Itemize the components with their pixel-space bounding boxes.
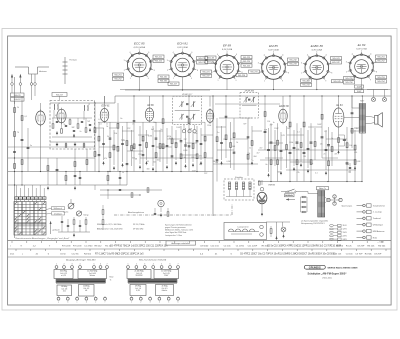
svg-text:C1 4700: C1 4700 [84,246,93,248]
svg-text:EABC 80: EABC 80 [311,44,324,48]
IF transformer T2 bandfilter [240,90,259,119]
svg-text:110/220V: 110/220V [135,275,143,277]
svg-text:gedrückt: gedrückt [53,229,60,232]
svg-text:12k: 12k [348,172,351,174]
svg-text:R8 1k2: R8 1k2 [95,246,103,248]
svg-text:C12 8n: C12 8n [72,254,80,256]
svg-text:R4 50k: R4 50k [84,254,92,256]
svg-text:2. Lautspr.: 2. Lautspr. [373,211,383,214]
wire right bottom rail [258,181,363,182]
voltage tap terminals [329,224,347,240]
output transformer upper winding boxes [54,270,107,279]
svg-text:R7 0,1M: R7 0,1M [73,246,81,248]
svg-text:10n: 10n [194,133,197,135]
tube socket V6 EL 84 [346,43,377,81]
wire heater bus under sockets [125,77,362,91]
svg-text:ZF 460 kHz: ZF 460 kHz [133,229,143,231]
svg-text:e: e [95,302,96,304]
tube socket V4 EM 85 [258,44,289,82]
aenderungen vorbehalten tag [166,241,196,245]
svg-text:4: 4 [159,302,160,304]
svg-text:905-224: 905-224 [243,61,251,63]
svg-text:GRUNDIG: GRUNDIG [309,265,321,269]
svg-text:3: 3 [301,63,302,65]
svg-text:2n: 2n [187,118,189,120]
voltage measurement note [165,223,193,236]
svg-text:4n7: 4n7 [151,129,154,131]
svg-text:0,1: 0,1 [25,116,28,118]
svg-text:1: 1 [173,78,174,80]
value label boxes near socket V4 [249,58,299,73]
svg-text:905-242: 905-242 [332,62,340,64]
svg-text:10k: 10k [114,133,117,135]
svg-text:6: 6 [148,52,149,54]
svg-text:5: 5 [316,51,317,53]
svg-text:c: c [77,302,78,304]
svg-text:C15 12P: C15 12P [297,246,306,248]
svg-text:8: 8 [197,70,198,72]
svg-text:905-211: 905-211 [155,56,163,58]
svg-text:(7012-001): (7012-001) [322,277,332,279]
svg-text:R11 0,5M: R11 0,5M [278,254,288,256]
antenna terminal circles [11,83,37,100]
svg-text:UKW-Dipol: UKW-Dipol [373,225,383,227]
svg-text:10n: 10n [157,159,160,161]
svg-text:C4 10n: C4 10n [346,254,354,256]
svg-text:C10 100P: C10 100P [125,254,136,256]
tube socket V5 EABC 80 [301,44,332,82]
svg-text:2n: 2n [324,154,326,156]
svg-text:4: 4 [352,53,353,55]
svg-text:0,5M: 0,5M [356,161,360,163]
wire mid horizontal links [8,104,356,170]
svg-text:1: 1 [218,80,219,82]
IF transformer T1 bandfilter [173,94,202,125]
svg-text:5k: 5k [236,142,238,144]
svg-text:4n7: 4n7 [257,153,260,155]
svg-text:5: 5 [161,264,162,266]
svg-text:4: 4 [153,264,154,266]
svg-text:1: 1 [264,80,265,82]
svg-text:905-232: 905-232 [289,59,297,61]
wire B+ top rail [115,95,391,96]
svg-text:2: 2 [140,302,141,304]
svg-text:10n: 10n [153,162,156,164]
heater dropper ladder [301,196,308,213]
svg-text:3: 3 [124,60,125,62]
svg-text:7012-63: 7012-63 [207,57,215,59]
svg-text:8: 8 [288,72,289,74]
svg-text:Abschirmgehäuse: Abschirmgehäuse [128,211,145,214]
svg-text:9: 9 [191,78,192,80]
wire main vertical divider [212,96,214,216]
frequency range note [97,224,145,231]
svg-text:5k: 5k [122,172,124,174]
svg-text:2: 2 [136,264,137,266]
power transformer dark winding band [128,279,177,283]
svg-text:ø 0,15: ø 0,15 [61,275,66,277]
value label boxes near socket V1 [113,55,170,83]
svg-text:R1 2k: R1 2k [346,246,353,248]
component list row 2 text [10,254,382,256]
svg-text:250k: 250k [207,125,211,127]
svg-text:0,1: 0,1 [324,131,327,133]
svg-text:ECH 81: ECH 81 [177,42,188,46]
svg-text:1n: 1n [249,148,251,150]
svg-text:9: 9 [148,78,149,80]
svg-text:905-256: 905-256 [345,82,353,84]
inter-rail components [65,171,121,185]
tone network [58,205,104,237]
svg-text:1: 1 [56,264,57,266]
tube socket V1 ECC 85 [124,42,155,80]
svg-text:5: 5 [182,49,183,51]
svg-text:300: 300 [147,169,150,171]
mains switch S1 [281,189,318,197]
pilot lamp and fuse cluster [266,222,290,240]
svg-text:R4 50k: R4 50k [365,254,373,256]
svg-text:EL 84: EL 84 [358,43,366,47]
svg-text:Netzsch.: Netzsch. [285,194,293,197]
value label boxes near socket V2 [168,57,208,86]
value label boxes near socket V3 [201,56,253,78]
svg-text:7: 7 [178,264,179,266]
antenna earth arrows [11,74,22,83]
svg-text:905-231: 905-231 [250,71,258,73]
svg-text:47k: 47k [199,155,202,157]
svg-text:6: 6 [100,264,101,266]
tube socket V2 ECH 81 [167,42,198,80]
svg-text:100P: 100P [130,147,135,149]
svg-text:150P: 150P [274,128,279,130]
svg-text:900-217: 900-217 [56,94,63,96]
value label boxes near socket V6 [344,55,387,84]
svg-text:3: 3 [258,63,259,65]
svg-text:47k: 47k [104,158,107,160]
svg-text:9: 9 [325,80,326,82]
tube socket V3 EF 89 [211,44,242,82]
svg-text:am Spannungswähler eingestellt: am Spannungswähler eingestellte [301,220,328,223]
svg-text:900-012: 900-012 [14,99,21,101]
svg-text:1: 1 [131,302,132,304]
svg-text:900-011: 900-011 [14,95,21,97]
svg-text:8n: 8n [175,143,177,145]
svg-text:905-225: 905-225 [243,65,251,67]
svg-text:R5 300: R5 300 [336,246,344,248]
component list strip top border [8,240,391,242]
additional annotation speckle [99,118,361,175]
svg-text:Änderungen vorbehalten: Änderungen vorbehalten [171,242,190,245]
output transformer dark winding band [56,279,106,283]
tube U1a ECC85 triode [36,110,46,127]
svg-text:4: 4 [173,52,174,54]
svg-text:Drucktast.: Drucktast. [54,212,63,215]
svg-text:0,25: 0,25 [281,135,285,137]
svg-text:10k: 10k [349,145,352,147]
svg-text:0,5M: 0,5M [183,150,188,152]
svg-text:2n: 2n [80,131,82,133]
svg-text:6: 6 [282,54,283,56]
svg-text:Ausgangs-Übertrager 7012-063: Ausgangs-Übertrager 7012-063 [65,259,96,262]
svg-text:8: 8 [154,70,155,72]
svg-text:5: 5 [273,51,274,53]
svg-text:WERKE RADIO-WERKE GMBH: WERKE RADIO-WERKE GMBH [328,266,358,269]
svg-text:905-254: 905-254 [377,81,385,83]
svg-text:905-222: 905-222 [202,76,210,78]
svg-text:2k: 2k [17,107,19,109]
svg-text:0,1: 0,1 [297,131,300,133]
shield enclosure boundary dash-dot [114,204,232,215]
svg-text:6k8: 6k8 [189,128,192,130]
svg-text:6: 6 [370,53,371,55]
svg-text:C9 25P: C9 25P [357,246,365,248]
svg-text:5: 5 [139,49,140,51]
svg-text:1n: 1n [106,123,108,125]
svg-text:Netz: Netz [110,276,114,279]
svg-text:100P: 100P [357,86,362,88]
svg-text:500P: 500P [317,124,322,126]
svg-text:905-212: 905-212 [155,61,163,63]
svg-text:4: 4 [264,54,265,56]
tone potentiometer [76,211,89,217]
svg-text:R4 50k: R4 50k [378,246,386,248]
svg-text:Gleichr.: Gleichr. [162,289,168,292]
svg-text:905-253: 905-253 [377,77,385,79]
svg-text:900-251: 900-251 [114,74,122,76]
svg-text:6k8: 6k8 [232,146,235,148]
svg-text:C2 150: C2 150 [142,246,150,248]
svg-text:3: 3 [144,264,145,266]
svg-text:2n: 2n [356,128,358,130]
svg-text:EABC 80: EABC 80 [279,105,289,108]
svg-text:C1 4700: C1 4700 [236,246,245,248]
svg-text:R7 0,1M: R7 0,1M [95,254,104,256]
svg-text:MW-Antenne: MW-Antenne [373,230,386,233]
loudspeaker LS1 [370,113,382,127]
svg-text:5: 5 [227,51,228,53]
svg-text:AM-Bereiche: 510–1620 kHz: AM-Bereiche: 510–1620 kHz [97,228,123,231]
svg-text:Wellensch.: Wellensch. [54,208,63,210]
viewing note near EM85 [285,191,297,201]
svg-text:12k: 12k [342,140,345,142]
svg-text:Tonband: Tonband [373,218,381,220]
power transformer lower winding boxes [128,283,177,295]
svg-text:905-241: 905-241 [332,58,340,60]
svg-text:L1: L1 [58,103,60,105]
svg-text:ZF-BF 460: ZF-BF 460 [243,90,254,93]
svg-text:900-252: 900-252 [114,79,122,81]
svg-text:905-223: 905-223 [243,57,251,59]
wire output transformer leads [344,96,370,182]
svg-text:8: 8 [331,72,332,74]
svg-text:Lautsprecher: Lautsprecher [237,225,248,228]
left mid section parts [47,102,96,190]
svg-text:47: 47 [55,115,57,117]
svg-text:C14 1n5: C14 1n5 [135,254,144,256]
svg-text:12k: 12k [267,121,270,123]
svg-text:C8 5000: C8 5000 [200,246,209,248]
dial lamp La1 [371,97,375,101]
svg-text:a: a [58,302,59,304]
svg-text:4: 4 [217,54,218,56]
svg-text:905-226: 905-226 [238,75,246,77]
svg-text:ZF 10,7 MHz: ZF 10,7 MHz [133,224,145,226]
svg-text:Netzspannung 110/125/220 V: Netzspannung 110/125/220 V [301,222,325,225]
svg-text:ZF-BF 10,7: ZF-BF 10,7 [181,94,193,96]
svg-text:C11 220P: C11 220P [248,246,258,248]
tube U5 EABC80 AF triode [279,105,290,124]
svg-text:9: 9 [370,79,371,81]
svg-text:905-251: 905-251 [377,56,385,58]
svg-text:C4 10n: C4 10n [224,246,232,248]
waveband switch contact table [14,202,46,236]
svg-text:905-216: 905-216 [198,62,206,64]
volume potentiometer [63,199,74,214]
svg-text:1: 1 [130,78,131,80]
component list row 1 text [10,245,386,248]
svg-text:8: 8 [376,71,377,73]
svg-text:6: 6 [326,54,327,56]
svg-text:700P: 700P [357,91,362,93]
svg-text:5: 5 [94,264,95,266]
svg-text:b: b [67,302,68,304]
svg-text:7: 7 [107,264,108,266]
svg-text:50u: 50u [153,122,156,124]
component list row lines [8,241,391,257]
svg-text:C14 1n5: C14 1n5 [333,254,342,256]
left input column components [13,77,32,238]
svg-text:Ratiofilter: Ratiofilter [235,176,243,179]
svg-text:C3 70P: C3 70P [355,254,363,256]
svg-text:905-215: 905-215 [198,58,206,60]
title block GRUNDIG logo [304,265,325,269]
svg-text:8n: 8n [120,118,122,120]
svg-text:905-245: 905-245 [333,81,341,83]
interstage link wires [95,127,359,162]
svg-text:5n: 5n [30,145,32,147]
FM tuner internal components [40,103,95,172]
output transformer TR2 winding [359,96,365,133]
svg-text:0,1: 0,1 [99,123,102,125]
wire dial lamp feed [355,85,389,97]
svg-text:900-261: 900-261 [160,76,168,78]
output transformer terminals [55,264,108,270]
tube U3 EF89 IF amplifier [145,105,154,123]
svg-text:1: 1 [128,264,129,266]
svg-text:905-243: 905-243 [302,80,310,82]
svg-text:d: d [86,302,87,304]
svg-text:C14 1n5: C14 1n5 [210,246,219,248]
svg-text:EM 85: EM 85 [269,44,278,48]
svg-text:300k: 300k [289,142,293,144]
EL84 cathode network [337,129,346,155]
svg-text:9: 9 [282,80,283,82]
ratio detector filter enclosure [224,176,254,200]
switch table callouts [46,207,65,234]
svg-text:Netz-Transformator 7012-014: Netz-Transformator 7012-014 [139,259,167,262]
svg-text:905-217: 905-217 [170,83,178,85]
svg-text:2n: 2n [132,123,134,125]
svg-text:900-262: 900-262 [160,81,168,83]
tuner unit label box [52,93,67,101]
svg-text:5: 5 [168,302,169,304]
svg-text:47k: 47k [354,152,357,154]
tube U4 EABC80 demodulator diodes [206,108,214,124]
svg-text:1n: 1n [273,122,275,124]
svg-text:0,1: 0,1 [98,119,101,121]
svg-text:C9 25P: C9 25P [374,254,382,256]
wire tube anode feeds [105,96,339,107]
svg-text:Tonabnehmer: Tonabnehmer [373,205,386,207]
svg-text:3: 3 [72,264,73,266]
svg-text:905-233: 905-233 [289,64,297,66]
rear connection terminals [357,204,386,240]
svg-text:R7 0,1M: R7 0,1M [62,246,70,248]
svg-text:EF 89: EF 89 [223,44,231,48]
svg-text:Ferritant.: Ferritant. [70,59,78,62]
svg-text:EF 89: EF 89 [147,105,154,107]
wire top rail left segment [50,102,115,104]
power transformer TR1 winding [318,191,325,218]
svg-text:Antenne: Antenne [38,70,47,73]
power supply notes [301,220,328,226]
tube U7 EM85 tuning indicator [257,180,276,216]
svg-text:2: 2 [301,72,302,74]
svg-text:R3 0,3M: R3 0,3M [287,254,296,256]
svg-text:6: 6 [170,264,171,266]
svg-text:7012-64: 7012-64 [207,62,215,64]
wire heater rail main [120,89,391,91]
svg-text:Spannungsw.: Spannungsw. [342,206,353,208]
svg-text:47k: 47k [297,172,300,174]
IF transformer T1 shield grounds [182,125,196,133]
svg-text:L2: L2 [88,104,90,106]
svg-text:ECC 85: ECC 85 [134,42,145,46]
svg-text:3: 3 [167,60,168,62]
svg-text:8n: 8n [184,157,186,159]
svg-text:6k8: 6k8 [278,172,281,174]
svg-text:— 10/41: — 10/41 [377,241,384,243]
svg-text:905-244: 905-244 [302,85,310,87]
svg-text:6: 6 [178,302,179,304]
svg-text:15k: 15k [310,163,313,165]
svg-text:8n: 8n [266,164,268,166]
svg-text:4: 4 [80,264,81,266]
ferrite antenna [63,57,78,84]
svg-text:2: 2 [64,264,65,266]
antenna dipole input [15,67,49,83]
svg-text:2n: 2n [160,129,162,131]
svg-text:9: 9 [236,80,237,82]
svg-text:R6 10k: R6 10k [367,246,375,248]
IF and AF stage component field [98,96,356,185]
svg-text:5k: 5k [106,126,108,128]
svg-text:12k: 12k [320,144,323,146]
svg-text:4n7: 4n7 [199,164,202,166]
value label boxes near socket V5 [301,57,343,87]
svg-text:4n7: 4n7 [259,148,262,150]
svg-text:6: 6 [236,54,237,56]
output transformer lower winding boxes [56,283,106,296]
svg-text:Spannungen mit Röhrenvoltmeter: Spannungen mit Röhrenvoltmeter [165,223,192,226]
svg-text:ohne Signal bei 220V Netz: ohne Signal bei 220V Netz [165,231,186,234]
waveband switch contact table header [15,197,46,202]
component value annotations field [98,119,357,166]
svg-text:905-255: 905-255 [345,78,353,80]
svg-text:6k8: 6k8 [254,156,257,158]
svg-text:5n: 5n [251,160,253,162]
tube U6 EL84 output pentode [333,104,344,129]
